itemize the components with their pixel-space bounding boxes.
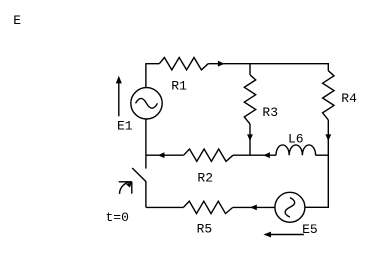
- label L6: [288, 132, 304, 147]
- resistor R4: [323, 71, 334, 120]
- svg-text:E5: E5: [302, 222, 318, 237]
- svg-text:t=0: t=0: [106, 210, 129, 225]
- label R3: [262, 105, 278, 120]
- wire: mid wire left segment (junction to R2): [146, 154, 184, 156]
- wire: R3 bottom lead to mid wire: [249, 124, 251, 155]
- sine symbol inside E1: [136, 98, 158, 108]
- svg-text:R5: R5: [197, 221, 213, 236]
- current arrow before L6 (pointing left): [263, 152, 270, 158]
- label t=0: [106, 210, 129, 225]
- wire: top right segment to R4 branch: [250, 64, 328, 71]
- label R2: [197, 171, 213, 186]
- wire: L6 right lead to R4 branch: [316, 154, 329, 156]
- svg-text:R2: R2: [197, 171, 213, 186]
- resistor R2: [184, 149, 233, 161]
- current arrow beside E1 (pointing up): [116, 76, 122, 117]
- svg-text:E: E: [13, 13, 21, 28]
- current arrow on top wire (right): [218, 61, 225, 67]
- svg-text:R3: R3: [262, 105, 278, 120]
- wire: R5 left to switch bottom corner: [146, 206, 184, 208]
- current arrow on mid wire (pointing left): [158, 152, 165, 158]
- wire: R3 top lead: [249, 64, 251, 75]
- current arrow on R4 (pointing down): [325, 134, 331, 141]
- label E (circuit title): [13, 13, 21, 28]
- wire: R2 right to R3 junction: [233, 154, 250, 156]
- switch (opening, t=0): [132, 155, 146, 207]
- label E1: [117, 119, 133, 134]
- current arrow on bottom wire (pointing left): [250, 205, 257, 211]
- arrow annotation under E5 (pointing left): [263, 232, 304, 238]
- wire: R4 bottom lead down to E5 corner: [305, 120, 329, 207]
- wire: R1 right to R3 junction: [208, 63, 250, 65]
- inductor L6: [276, 145, 316, 155]
- current arrow on R3 (pointing down): [247, 134, 253, 141]
- svg-text:R1: R1: [171, 78, 187, 93]
- resistor R1: [159, 58, 208, 70]
- voltage source E5 (AC source circle): [275, 192, 305, 222]
- label R1: [171, 78, 187, 93]
- svg-text:E1: E1: [117, 119, 133, 134]
- resistor R3: [244, 75, 255, 124]
- voltage source E1 (AC source circle): [131, 88, 162, 119]
- label R4: [341, 91, 357, 106]
- label E5: [302, 222, 318, 237]
- resistor R5: [183, 201, 232, 213]
- svg-text:L6: L6: [288, 132, 304, 147]
- label R5: [197, 221, 213, 236]
- wire: top-left corner (E1 top terminal up and right to R1): [146, 64, 159, 88]
- wire: E5 left terminal to R5: [233, 206, 275, 208]
- sine symbol inside E5 (vertical): [285, 198, 295, 218]
- wire: mid wire between R3 junction and L6: [250, 154, 276, 156]
- switch action arc annotation: [119, 182, 132, 194]
- wire: E1 bottom terminal to mid-wire junction: [145, 119, 147, 155]
- svg-text:R4: R4: [341, 91, 357, 106]
